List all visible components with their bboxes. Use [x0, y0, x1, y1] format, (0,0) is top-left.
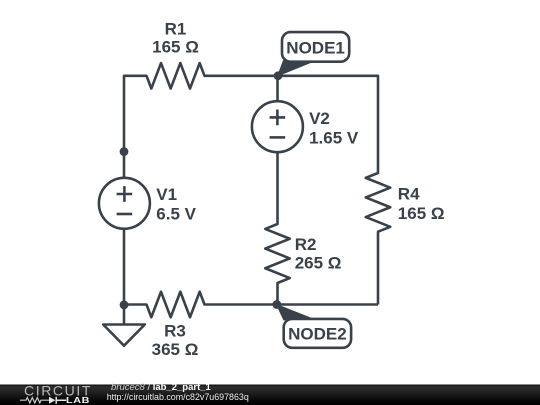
- svg-text:165 Ω: 165 Ω: [152, 37, 199, 56]
- svg-text:NODE2: NODE2: [288, 324, 347, 343]
- svg-text:V2: V2: [309, 109, 330, 128]
- svg-text:R3: R3: [164, 322, 186, 341]
- svg-text:R1: R1: [165, 19, 187, 38]
- svg-text:365 Ω: 365 Ω: [152, 340, 199, 359]
- svg-text:R4: R4: [398, 185, 420, 204]
- svg-text:LAB: LAB: [66, 395, 90, 404]
- svg-text:R2: R2: [295, 235, 317, 254]
- svg-text:NODE1: NODE1: [286, 38, 345, 57]
- svg-text:6.5 V: 6.5 V: [156, 205, 196, 224]
- svg-text:V1: V1: [156, 185, 177, 204]
- svg-text:1.65 V: 1.65 V: [309, 128, 359, 147]
- svg-text:http://circuitlab.com/c82v7u69: http://circuitlab.com/c82v7u697863q: [107, 392, 249, 402]
- svg-text:265 Ω: 265 Ω: [295, 254, 342, 273]
- svg-text:165 Ω: 165 Ω: [398, 204, 445, 223]
